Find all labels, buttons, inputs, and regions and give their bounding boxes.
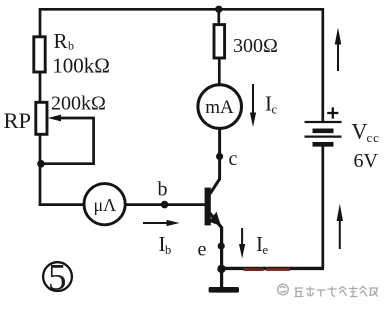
svg-text:b: b [68, 39, 74, 53]
svg-text:6V: 6V [354, 150, 379, 172]
svg-text:b: b [158, 179, 168, 201]
svg-text:V: V [352, 118, 368, 143]
svg-text:e: e [198, 239, 207, 261]
svg-text:cc: cc [367, 130, 380, 145]
svg-text:RP: RP [4, 108, 32, 133]
svg-text:R: R [54, 29, 68, 53]
svg-text:c: c [272, 103, 278, 117]
svg-text:5: 5 [48, 257, 67, 298]
svg-text:c: c [229, 148, 238, 170]
svg-text:100kΩ: 100kΩ [52, 53, 110, 77]
svg-text:mA: mA [205, 97, 234, 118]
svg-text:300Ω: 300Ω [233, 35, 278, 57]
svg-text:e: e [263, 243, 269, 257]
svg-text:b: b [165, 243, 171, 257]
svg-text:μΛ: μΛ [94, 195, 117, 215]
svg-text:200kΩ: 200kΩ [51, 93, 106, 115]
